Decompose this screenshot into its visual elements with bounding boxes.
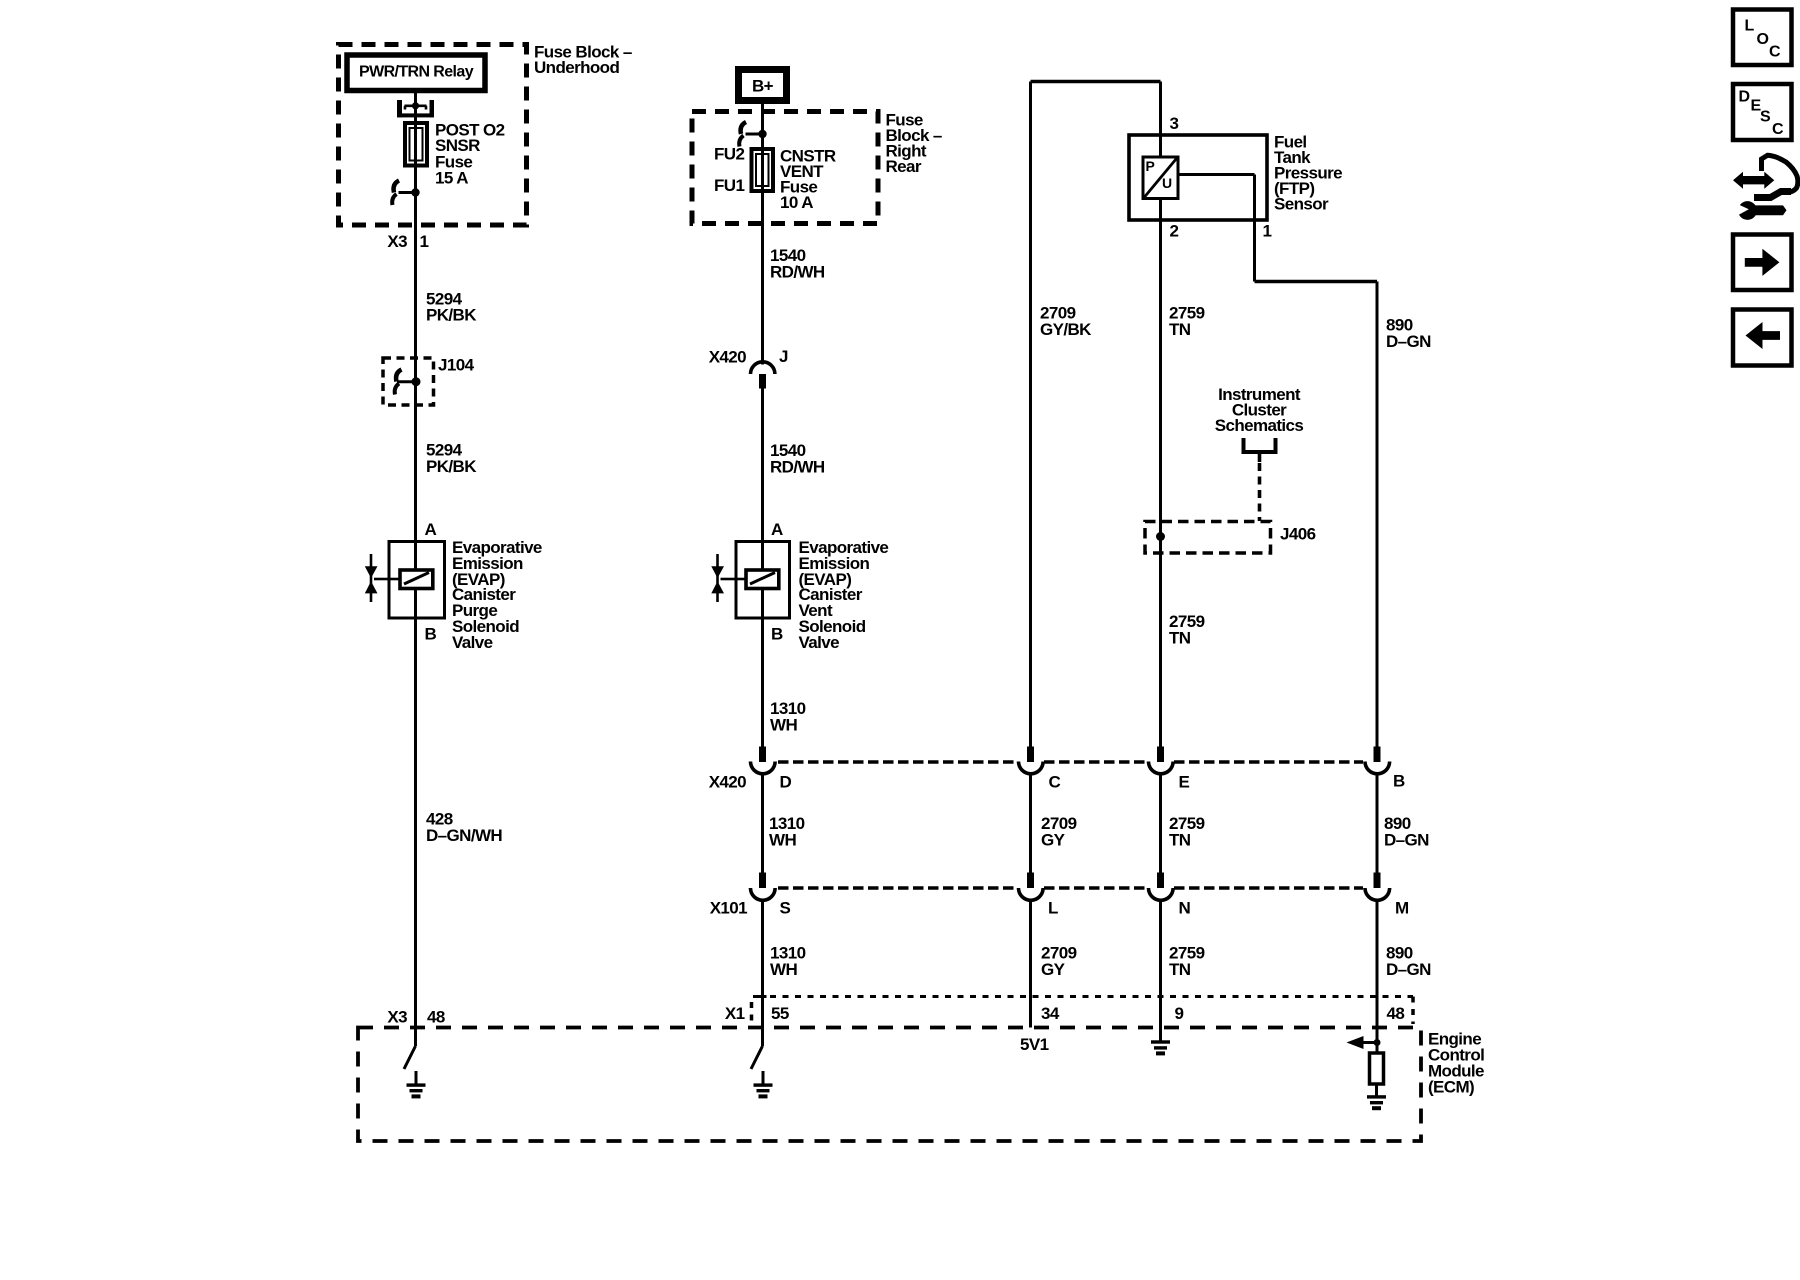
fuel tank pressure sensor box [1129,135,1267,220]
svg-text:55: 55 [771,1004,789,1023]
nav icon back arrow button [1733,310,1792,366]
svg-text:B: B [771,625,783,644]
connector X1 dotted boundary [752,997,1414,1025]
fuse block underhood enclosure [339,45,527,226]
svg-text:L: L [1745,18,1755,35]
svg-text:N: N [1179,899,1191,918]
resistor (ECM internal pull-up) [1370,1053,1384,1084]
fuse block right rear enclosure [692,112,878,224]
wire 2709 GY/BK feed: top horizontal [1031,80,1161,84]
svg-text:Valve: Valve [799,633,840,652]
wire 890 D-GN (FTP pin 1 to ECM pin 48) [1178,175,1377,1054]
svg-text:WH: WH [769,831,796,850]
svg-text:2: 2 [1170,222,1179,241]
relay contact bracket [397,100,434,117]
connector X420 pin D [751,747,776,774]
ECM pin X1-55 blade [751,1046,763,1069]
nav icon shortcut/tools [1733,155,1798,220]
wire 2759 TN (FTP pin 2 to ECM pin 9) [1159,198,1162,1028]
EVAP canister purge solenoid valve box [389,542,445,619]
splice J406 junction dot [1156,532,1165,541]
svg-text:B: B [1393,772,1405,791]
svg-text:D: D [1739,89,1751,106]
connector X101 pin M [1365,873,1390,901]
svg-text:C: C [1769,44,1781,61]
svg-text:(ECM): (ECM) [1428,1078,1474,1097]
splice J104 box [383,358,434,405]
svg-text:D–GN: D–GN [1386,960,1431,979]
svg-text:FU2: FU2 [714,145,744,164]
svg-text:Schematics: Schematics [1215,416,1304,435]
connector X420 pin B [1365,747,1390,774]
svg-text:X1: X1 [725,1004,745,1023]
svg-text:C: C [1049,773,1061,792]
ground (ECM, mid-left) [754,1071,773,1098]
ground (ECM pin 48 resistor) [1367,1084,1386,1110]
svg-text:X3: X3 [387,1008,407,1027]
svg-text:P: P [1146,158,1155,174]
connector X101 pin L [1019,873,1044,901]
svg-text:PK/BK: PK/BK [426,306,477,325]
svg-text:RD/WH: RD/WH [770,458,825,477]
svg-text:B: B [425,625,437,644]
svg-text:S: S [780,899,791,918]
svg-text:RD/WH: RD/WH [770,263,825,282]
svg-text:L: L [1048,899,1058,918]
svg-text:PWR/TRN Relay: PWR/TRN Relay [359,64,474,81]
svg-text:48: 48 [427,1008,445,1027]
nav icon DESC button [1733,84,1792,140]
svg-text:X420: X420 [709,773,746,792]
svg-text:D–GN: D–GN [1386,332,1431,351]
svg-text:34: 34 [1041,1004,1060,1023]
svg-text:TN: TN [1169,320,1191,339]
EVAP canister vent solenoid valve box [736,542,790,619]
svg-text:TN: TN [1169,831,1191,850]
svg-text:A: A [425,520,437,539]
fuse F: POST O2 SNSR fuse body (under wire) [405,123,427,166]
PWR/TRN Relay [347,55,485,91]
svg-text:A: A [771,520,783,539]
battery feed B+ [739,70,787,101]
svg-text:GY: GY [1041,831,1066,850]
connector X420 pin J [751,362,775,389]
svg-text:5V1: 5V1 [1020,1035,1049,1054]
EVAP purge valve symbol [365,554,390,602]
nav icon LOC button [1733,10,1792,66]
svg-text:D–GN/WH: D–GN/WH [426,826,502,845]
svg-text:Underhood: Underhood [534,58,619,77]
connector X101 pin N [1149,873,1174,901]
switch contact in fuse block underhood [392,181,420,206]
svg-text:WH: WH [770,716,797,735]
EVAP purge solenoid coil [390,570,433,589]
svg-text:PK/BK: PK/BK [426,457,477,476]
svg-text:WH: WH [770,960,797,979]
svg-text:B+: B+ [752,77,774,96]
ground (ECM, left) [407,1071,426,1098]
svg-text:E: E [1179,773,1190,792]
splice J406 box [1145,522,1271,554]
svg-text:1: 1 [1263,222,1272,241]
ground (ECM pin 9) [1151,1028,1170,1056]
wire 1540 RD/WH: B+ to EVAP vent solenoid, down to ECM [761,104,764,1046]
svg-text:J104: J104 [438,356,475,375]
ECM enclosure [358,1028,1421,1142]
svg-text:D: D [780,773,792,792]
nav icon next arrow button [1733,235,1792,291]
connector X420 pin E [1149,747,1174,774]
svg-text:9: 9 [1175,1004,1184,1023]
svg-text:J: J [779,347,788,366]
wire 2709 GY/BK vertical run (FTP pin 3 to ECM pin 34) [1029,82,1032,1028]
svg-text:C: C [1772,121,1784,138]
svg-text:Rear: Rear [886,157,922,176]
instrument cluster off-page bracket [1244,438,1276,521]
fuse CNSTR VENT body (under wire) [752,149,774,191]
svg-text:Sensor: Sensor [1274,195,1329,214]
svg-text:S: S [1760,109,1771,126]
svg-text:Valve: Valve [452,633,493,652]
svg-text:GY: GY [1041,960,1066,979]
svg-text:X420: X420 [709,348,746,367]
svg-text:TN: TN [1169,960,1191,979]
svg-text:D–GN: D–GN [1384,831,1429,850]
svg-text:X3: X3 [387,232,407,251]
connector X101 row dashed line [778,886,1363,890]
svg-text:TN: TN [1169,629,1191,648]
svg-text:U: U [1162,175,1172,191]
connector X420 row dashed line [778,760,1363,764]
wire FTP pin 3 drop [1159,82,1162,158]
svg-text:X101: X101 [710,899,747,918]
svg-text:M: M [1395,899,1409,918]
svg-text:FU1: FU1 [714,176,744,195]
connector X420 pin C [1019,747,1044,774]
wire: PWR/TRN relay output, 5294 PK/BK run down to ECM [414,93,417,1046]
svg-text:1: 1 [420,232,429,251]
EVAP vent valve symbol [711,554,736,602]
svg-text:10 A: 10 A [780,193,813,212]
svg-text:GY/BK: GY/BK [1040,320,1092,339]
signal direction arrow (ECM pin 48) [1347,1036,1381,1049]
connector X101 pin S [751,873,776,901]
svg-text:48: 48 [1387,1004,1405,1023]
ECM pin X3-48 blade [404,1046,416,1069]
EVAP vent solenoid coil [737,570,779,589]
switch contact in fuse block right rear [739,122,767,147]
svg-text:3: 3 [1170,114,1179,133]
svg-text:O: O [1757,31,1769,48]
FTP sensor P/U transducer [1143,157,1178,199]
svg-text:15 A: 15 A [435,169,468,188]
splice J104 symbol [395,370,421,395]
svg-text:J406: J406 [1280,525,1316,544]
